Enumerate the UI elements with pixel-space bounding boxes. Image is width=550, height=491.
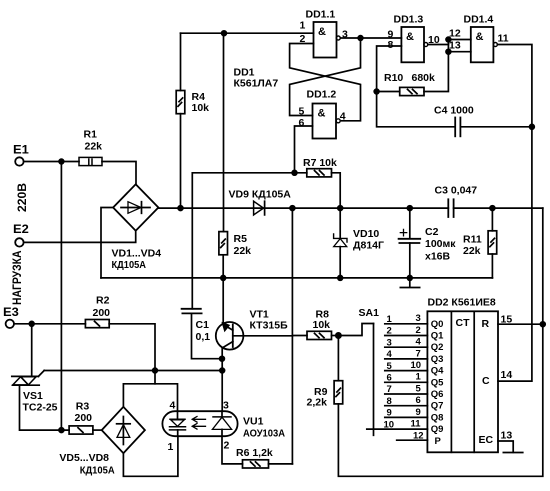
- svg-text:6: 6: [416, 395, 421, 406]
- svg-text:2,2k: 2,2k: [307, 397, 328, 409]
- svg-text:Д814Г: Д814Г: [353, 240, 384, 252]
- wire R2 to VU1 pin4 line: [109, 324, 155, 384]
- svg-text:&: &: [476, 31, 484, 43]
- wire R4 verticals: [180, 33, 182, 208]
- NAND gate DD1.4: [449, 13, 509, 62]
- svg-text:8: 8: [387, 396, 392, 407]
- svg-text:1: 1: [300, 20, 306, 32]
- DD2 output row Q5: [385, 372, 444, 389]
- wire DD2 R pin: [498, 323, 543, 325]
- DD2 output row Q7: [385, 395, 444, 412]
- DD2 output row Q9: [367, 419, 444, 436]
- svg-text:НАГРУЗКА: НАГРУЗКА: [10, 250, 24, 305]
- svg-text:0,1: 0,1: [196, 331, 211, 343]
- resistor R9: [307, 381, 343, 409]
- svg-text:DD1.1: DD1.1: [306, 9, 336, 21]
- wire C4 right to DD1.4 output vertical: [460, 126, 532, 128]
- diode VD9: [229, 188, 292, 215]
- svg-text:R: R: [482, 318, 490, 330]
- svg-text:3: 3: [416, 313, 421, 324]
- counter DD2: [427, 297, 498, 453]
- svg-text:13: 13: [449, 39, 461, 51]
- svg-text:200: 200: [75, 412, 93, 424]
- svg-text:Q1: Q1: [431, 331, 444, 342]
- svg-text:CT: CT: [456, 317, 471, 329]
- svg-text:100мк: 100мк: [425, 238, 456, 250]
- svg-text:R3: R3: [76, 400, 90, 412]
- junction dot load/R3: [59, 428, 64, 433]
- wire DD1.1 output to node: [340, 37, 360, 39]
- svg-text:Q4: Q4: [431, 366, 444, 377]
- svg-text:КД105А: КД105А: [112, 259, 147, 271]
- wire R6 to emitter line: [269, 463, 293, 465]
- svg-text:1: 1: [416, 372, 422, 383]
- junction dot R5/bus: [221, 276, 226, 281]
- svg-text:9: 9: [387, 408, 392, 419]
- capacitor C4: [434, 105, 474, 137]
- wire R1 to bridge VD1-VD4 top: [102, 162, 136, 185]
- svg-text:C2: C2: [425, 226, 439, 238]
- svg-text:R6 1,2k: R6 1,2k: [236, 447, 273, 459]
- svg-text:DD1.4: DD1.4: [464, 13, 494, 25]
- wire VT1 emitter down to VU1 pin3: [221, 347, 223, 411]
- svg-text:Q3: Q3: [431, 354, 444, 365]
- junction dot DD1.1 out: [358, 36, 363, 41]
- node R4 bottom: [178, 206, 183, 211]
- node VD9 out / VT1 base line: [290, 206, 295, 211]
- svg-text:7: 7: [416, 348, 421, 359]
- svg-text:13: 13: [501, 429, 513, 441]
- wire node to DD1.4 pin13: [448, 51, 470, 53]
- svg-text:VS1: VS1: [23, 390, 43, 402]
- resistor R7: [303, 157, 337, 177]
- DD2 output row Q2: [385, 337, 444, 354]
- svg-text:11: 11: [498, 32, 509, 44]
- wire bridge VD5-VD8 top to VU1 pin4: [123, 384, 177, 411]
- svg-text:КД105А: КД105А: [80, 464, 115, 476]
- DD2 output row Q0: [385, 313, 444, 330]
- svg-text:22k: 22k: [463, 245, 481, 257]
- svg-text:4: 4: [170, 400, 176, 412]
- wire DD1.2 pin6 to R7 node: [295, 126, 313, 173]
- node R7/VD10: [338, 206, 343, 211]
- svg-text:4: 4: [416, 337, 422, 348]
- resistor R5: [219, 232, 251, 257]
- svg-text:C3 0,047: C3 0,047: [435, 184, 478, 196]
- junction dot C4/DD1.4 out: [530, 124, 535, 129]
- svg-text:220В: 220В: [15, 183, 29, 212]
- svg-text:R2: R2: [96, 294, 110, 306]
- svg-text:Q5: Q5: [431, 377, 444, 388]
- node DD1.2 pin6 / R7: [292, 170, 297, 175]
- resistor R1: [79, 129, 102, 166]
- wire bridge VD5-VD8 bottom to VU1 pin1: [123, 436, 177, 476]
- wire R9 bottom to bottom bus: [338, 208, 542, 476]
- svg-text:1: 1: [168, 441, 174, 453]
- node VD10 bottom: [338, 276, 343, 281]
- junction dot DD2 R pin: [540, 322, 545, 327]
- zener diode VD10: [334, 208, 384, 278]
- svg-text:VD10: VD10: [353, 228, 379, 240]
- wire VS1 gate line: [44, 370, 222, 372]
- resistor R11: [463, 208, 497, 278]
- svg-text:SA1: SA1: [359, 307, 380, 319]
- wire DD1.4 output down to DD2 C pin: [497, 45, 532, 382]
- junction dot E1/load: [59, 159, 64, 164]
- switch SA1: [359, 307, 380, 435]
- svg-text:Q2: Q2: [431, 342, 444, 353]
- DD2 output row Q8: [385, 407, 444, 424]
- wire R10 left to DD1.3 pin8: [377, 46, 402, 92]
- svg-text:12: 12: [413, 430, 424, 441]
- svg-text:ТС2-25: ТС2-25: [23, 402, 58, 414]
- svg-text:10k: 10k: [313, 319, 331, 331]
- NAND gate DD1.3: [388, 13, 440, 62]
- wire E2 to bridge VD1-VD4 bottom: [24, 231, 136, 243]
- svg-text:R1: R1: [84, 129, 98, 141]
- svg-text:&: &: [318, 26, 326, 38]
- svg-text:4: 4: [340, 111, 346, 123]
- junction dot E3/VS1: [29, 321, 34, 326]
- wire E3 to R2: [14, 323, 85, 325]
- wire R7 right to VD9 line: [332, 173, 341, 208]
- svg-text:АОУ103А: АОУ103А: [243, 427, 285, 439]
- DD2 pin EC 13 stub: [498, 429, 523, 452]
- svg-text:Е1: Е1: [13, 142, 29, 156]
- DD2 output row Q3: [385, 348, 444, 365]
- resistor R10: [384, 72, 435, 96]
- svg-text:P: P: [435, 436, 442, 447]
- resistor R3: [69, 400, 93, 434]
- svg-text:10k: 10k: [192, 102, 210, 114]
- svg-text:R10: R10: [384, 72, 403, 84]
- DD2 output row Q4: [385, 360, 444, 377]
- node C2 bottom: [407, 276, 412, 281]
- terminal E1: [13, 142, 29, 165]
- svg-text:VD9 КД105А: VD9 КД105А: [229, 188, 292, 200]
- svg-text:1: 1: [387, 314, 393, 325]
- svg-text:VU1: VU1: [243, 416, 264, 428]
- svg-text:DD1.3: DD1.3: [394, 13, 424, 25]
- svg-text:6: 6: [387, 373, 392, 384]
- svg-text:х16В: х16В: [425, 251, 451, 263]
- svg-text:Q6: Q6: [431, 389, 444, 400]
- wire bridge VD1-VD4 left to common bus: [101, 208, 113, 278]
- capacitor C3: [435, 184, 478, 217]
- wire base node to R8: [292, 335, 307, 337]
- svg-text:5: 5: [387, 361, 393, 372]
- svg-text:C4 1000: C4 1000: [434, 105, 474, 117]
- wire VD9 line (bridge right output): [158, 207, 448, 209]
- svg-text:6: 6: [299, 117, 305, 129]
- svg-text:10: 10: [411, 360, 422, 371]
- svg-text:VD5...VD8: VD5...VD8: [59, 452, 109, 464]
- svg-text:R5: R5: [234, 233, 248, 245]
- DD2 output row Q6: [385, 383, 444, 400]
- svg-text:5: 5: [299, 106, 305, 118]
- wire R3 to bridge VD5-VD8 left: [93, 429, 102, 431]
- svg-text:EC: EC: [479, 434, 494, 446]
- junction dot pin13 node: [446, 49, 451, 54]
- junction dot gate line/emitter: [220, 368, 225, 373]
- svg-text:КТ315Б: КТ315Б: [250, 320, 289, 332]
- svg-text:Q7: Q7: [431, 401, 444, 412]
- wire C1 bottom to VT1 emitter line: [192, 313, 222, 358]
- svg-text:12: 12: [449, 28, 461, 40]
- svg-text:R7 10k: R7 10k: [303, 157, 337, 169]
- resistor R6: [236, 447, 273, 468]
- svg-text:&: &: [318, 108, 326, 120]
- svg-text:11: 11: [411, 419, 422, 430]
- svg-text:К561ЛА7: К561ЛА7: [234, 78, 279, 90]
- resistor R2: [85, 294, 110, 327]
- wire VS1 bottom to R3: [20, 385, 70, 430]
- wire R7 line: [192, 173, 306, 309]
- common bus wire: [101, 277, 492, 279]
- triac VS1: [12, 371, 58, 414]
- svg-text:Q0: Q0: [431, 319, 444, 330]
- svg-text:15: 15: [501, 313, 513, 325]
- terminal E2: [13, 222, 29, 247]
- svg-text:2: 2: [416, 325, 421, 336]
- svg-text:5: 5: [416, 383, 422, 394]
- wire node to SA1 arm: [338, 324, 373, 336]
- NAND gate DD1.2: [299, 88, 346, 138]
- wire R5 bottom to VT1 collector: [222, 255, 224, 325]
- wire VD9 node down through base to R6: [291, 208, 293, 464]
- ground symbol: [400, 278, 419, 288]
- resistor R4: [176, 91, 209, 114]
- wire E1 to R1: [24, 161, 79, 163]
- svg-text:200: 200: [93, 307, 111, 319]
- resistor R8: [307, 308, 332, 339]
- svg-text:4: 4: [387, 349, 393, 360]
- svg-text:DD1.2: DD1.2: [307, 88, 337, 100]
- svg-text:R11: R11: [463, 233, 482, 245]
- junction dot C1/emitter: [220, 356, 225, 361]
- DD2 output row Q1: [385, 325, 444, 342]
- svg-text:9: 9: [416, 407, 421, 418]
- NAND gate DD1.1: [300, 9, 349, 58]
- wire top bus to DD1.1 pin1: [181, 32, 314, 34]
- transistor VT1: [216, 309, 293, 350]
- svg-text:7: 7: [387, 384, 392, 395]
- wire mid vertical to R5: [223, 33, 225, 231]
- capacitor C2: [399, 208, 457, 278]
- svg-text:Q9: Q9: [431, 424, 444, 435]
- svg-text:2: 2: [224, 439, 230, 451]
- junction dot pin12 node: [446, 37, 451, 42]
- wire E3 down to VS1: [31, 324, 33, 377]
- capacitor C1: [182, 309, 211, 343]
- wire DD1.1 out to DD1.3 pin9: [361, 37, 402, 39]
- junction dot top bus: [222, 31, 227, 36]
- svg-text:DD2 К561ИЕ8: DD2 К561ИЕ8: [428, 297, 496, 309]
- terminal E3: [3, 305, 19, 328]
- wire load vertical: [60, 162, 62, 431]
- wire R8 to SA1 node: [332, 335, 339, 337]
- svg-text:C1: C1: [196, 319, 210, 331]
- junction dot R8/R9/SA1: [336, 333, 341, 338]
- wire VU1 pin2 to R6: [222, 436, 243, 464]
- svg-text:3: 3: [223, 400, 229, 412]
- diode bridge VD1-VD4: [112, 184, 162, 270]
- svg-text:C: C: [482, 375, 490, 387]
- label DD1: [234, 67, 279, 90]
- junction dot R10 left: [374, 89, 379, 94]
- svg-text:14: 14: [501, 369, 513, 381]
- svg-text:22k: 22k: [85, 141, 103, 153]
- wire node to DD1.4 pin12: [448, 39, 470, 41]
- node C2 top: [407, 206, 412, 211]
- svg-text:10: 10: [384, 419, 395, 430]
- svg-text:&: &: [406, 31, 414, 43]
- node R11 top: [490, 206, 495, 211]
- wire C3 right to corner: [454, 207, 543, 209]
- DD2 carry row P: [397, 430, 442, 446]
- svg-text:22k: 22k: [234, 245, 252, 257]
- svg-text:Е2: Е2: [13, 222, 29, 236]
- wire cross-coupling DD1.1 out to DD1.2 pin5: [290, 38, 361, 116]
- svg-text:Q8: Q8: [431, 412, 444, 423]
- wire cross-coupling DD1.1 pin2 to DD1.2 out: [290, 44, 361, 121]
- svg-text:680k: 680k: [412, 72, 436, 84]
- wire 12/13 vertical down to R10: [424, 40, 448, 92]
- svg-text:VD1...VD4: VD1...VD4: [112, 248, 162, 260]
- svg-text:2: 2: [387, 326, 392, 337]
- optocoupler VU1: [162, 400, 285, 453]
- wire DD1.3 output to 12/13 node: [428, 44, 449, 46]
- junction dot R2 line/gate line: [153, 368, 158, 373]
- svg-text:Е3: Е3: [3, 305, 19, 319]
- wire R9 vertical: [337, 336, 339, 381]
- diode bridge VD5-VD8: [59, 407, 144, 477]
- svg-text:3: 3: [387, 337, 392, 348]
- wire R10 node down to C4 line: [377, 92, 455, 127]
